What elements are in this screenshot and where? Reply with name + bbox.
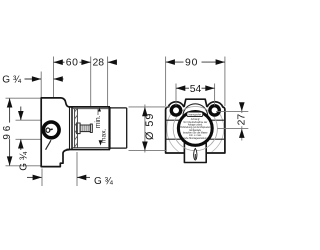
svg-text:G ¾: G ¾ xyxy=(94,176,114,187)
svg-text:Rohrleitung gut durchspuelen: Rohrleitung gut durchspuelen xyxy=(180,126,211,129)
svg-text:54: 54 xyxy=(190,84,202,95)
svg-text:28: 28 xyxy=(93,58,105,69)
svg-text:90: 90 xyxy=(185,57,198,68)
svg-text:min. u. max.: min. u. max. xyxy=(189,135,202,137)
svg-text:Anlage unbed.: Anlage unbed. xyxy=(188,124,203,127)
svg-text:60: 60 xyxy=(66,58,79,69)
svg-text:27: 27 xyxy=(236,114,247,126)
svg-text:hansgrohe: hansgrohe xyxy=(189,113,202,117)
svg-text:beachten Sie die Masse: beachten Sie die Masse xyxy=(183,131,208,134)
svg-text:min.: min. xyxy=(95,115,102,128)
svg-text:Einbautiefe: Einbautiefe xyxy=(190,129,202,132)
svg-text:G ¾: G ¾ xyxy=(18,151,29,171)
svg-text:96: 96 xyxy=(2,123,13,140)
svg-text:Vor Inbetriebnahme der: Vor Inbetriebnahme der xyxy=(183,121,207,124)
svg-text:Ø 59: Ø 59 xyxy=(144,113,156,140)
svg-text:max.: max. xyxy=(100,128,107,142)
svg-text:siehe Montageanleitung: siehe Montageanleitung xyxy=(183,137,208,140)
svg-text:G ¾: G ¾ xyxy=(2,75,22,86)
svg-text:Achtung!: Achtung! xyxy=(191,118,200,121)
